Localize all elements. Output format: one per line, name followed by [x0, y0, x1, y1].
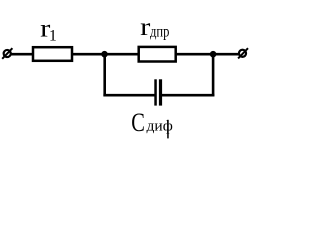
resistor Rdpr box [139, 47, 176, 62]
svg-text:С: С [131, 108, 145, 137]
junction node left [101, 51, 108, 58]
wire: R1 to Rdpr [72, 53, 139, 56]
capacitor C_dif plates [154, 79, 162, 105]
wire: capacitor to bottom right [162, 94, 214, 97]
junction node right [210, 51, 217, 58]
wire: right vertical drop [212, 54, 215, 96]
left terminal [2, 48, 12, 59]
label r_dpr [140, 14, 169, 41]
svg-text:диф: диф [147, 119, 174, 135]
wire: left vertical drop [103, 54, 106, 96]
resistor r1 box [33, 47, 72, 61]
wire: left terminal to R1 [11, 53, 33, 56]
label C_dif [131, 108, 173, 138]
svg-text:1: 1 [49, 28, 57, 45]
wire: Rdpr to right terminal [176, 53, 239, 56]
wire: bottom left to capacitor [103, 94, 154, 97]
label r1 [40, 15, 57, 44]
right terminal [238, 48, 248, 58]
svg-text:дпр: дпр [150, 24, 169, 41]
